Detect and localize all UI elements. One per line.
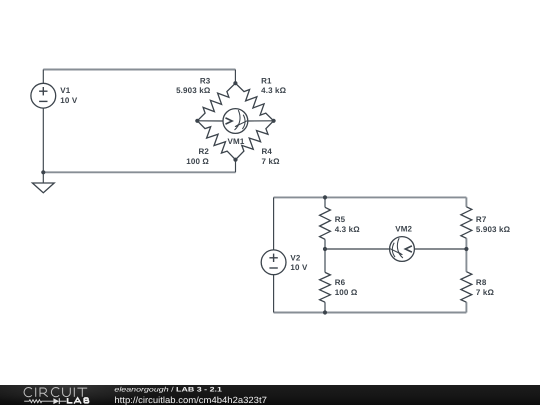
svg-text:VM1: VM1 [228, 137, 245, 146]
label R6 100 Ohm [335, 278, 358, 297]
wire VM2 left lead [325, 248, 390, 250]
svg-text:V2: V2 [290, 253, 300, 262]
svg-text:R6: R6 [335, 278, 346, 287]
label R7 5.903 kOhm [476, 215, 511, 234]
wire left branch lower lead [324, 302, 326, 312]
svg-text:R4: R4 [262, 147, 273, 156]
node bridge bottom [233, 158, 237, 162]
node left branch bottom [323, 310, 327, 314]
label V1 10 V [60, 86, 78, 105]
node bridge left [195, 119, 199, 123]
logo LAB letters [68, 397, 89, 403]
label R4 7 kOhm [262, 147, 281, 166]
label R1 4.3 kOhm [261, 77, 287, 96]
svg-text:R1: R1 [261, 77, 272, 86]
svg-text:eleanorgough / LAB 3 - 2.1: eleanorgough / LAB 3 - 2.1 [114, 386, 222, 393]
wire bottom horizontal bridge to V1 [43, 171, 235, 173]
resistor R3 [197, 83, 235, 121]
voltage source V2 [261, 250, 286, 275]
wire right branch upper lead [465, 197, 467, 206]
footer bar [0, 385, 540, 405]
label R8 7 kOhm [476, 278, 495, 297]
svg-text:4.3 kΩ: 4.3 kΩ [335, 225, 361, 234]
wire VM1 left lead [197, 120, 223, 122]
node bridge top [233, 81, 237, 85]
label R2 100 Ohm [186, 147, 209, 166]
svg-text:4.3 kΩ: 4.3 kΩ [261, 86, 287, 95]
wire bridge top drop [234, 70, 236, 84]
svg-text:7 kΩ: 7 kΩ [476, 288, 495, 297]
logo diode [53, 398, 59, 404]
wire left branch upper lead [324, 197, 326, 207]
label R3 5.903 kOhm [176, 77, 211, 96]
wire right branch lower lead [465, 302, 467, 312]
logo waveform wire [24, 399, 53, 402]
wire right branch middle [465, 238, 467, 271]
label R5 4.3 kOhm [335, 215, 361, 234]
svg-text:5.903 kΩ: 5.903 kΩ [176, 86, 211, 95]
wire ground stub [42, 172, 44, 183]
svg-text:100 Ω: 100 Ω [335, 288, 358, 297]
wire VM2 right lead [414, 248, 466, 250]
node V1 bottom junction [41, 170, 45, 174]
resistor R8 [461, 272, 472, 303]
resistor R6 [320, 272, 331, 302]
voltmeter VM1 [223, 109, 248, 134]
svg-text:http://circuitlab.com/cm4b4h2a: http://circuitlab.com/cm4b4h2a323t7 [114, 395, 267, 405]
svg-text:R8: R8 [476, 278, 487, 287]
wire left branch middle [324, 239, 326, 272]
label V2 10 V [290, 253, 308, 272]
wire V2 bottom stub [273, 275, 275, 313]
wire VM1 right lead [248, 120, 274, 122]
ground [32, 183, 54, 193]
wire V2 top stub [273, 197, 275, 250]
svg-text:R3: R3 [200, 77, 211, 86]
svg-text:7 kΩ: 7 kΩ [262, 157, 281, 166]
resistor R2 [197, 121, 235, 160]
svg-text:VM2: VM2 [395, 225, 412, 234]
logo CIRCUIT letters [24, 387, 87, 396]
svg-text:R2: R2 [198, 147, 209, 156]
node left branch top [323, 195, 327, 199]
svg-text:5.903 kΩ: 5.903 kΩ [476, 225, 511, 234]
resistor R4 [236, 121, 274, 160]
voltage source V1 [31, 83, 56, 108]
wire V1 top stub [42, 70, 44, 84]
node bridge right [272, 119, 276, 123]
wire circuit2 top horizontal [274, 196, 467, 198]
resistor R7 [461, 207, 472, 239]
node left branch mid [323, 247, 327, 251]
resistor R1 [235, 83, 273, 121]
svg-text:R7: R7 [476, 215, 487, 224]
svg-text:10 V: 10 V [60, 96, 78, 105]
voltmeter VM2 [390, 237, 415, 262]
svg-text:V1: V1 [60, 86, 70, 95]
node right branch mid [464, 247, 468, 251]
svg-text:R5: R5 [335, 215, 346, 224]
wire V1 bottom stub [42, 108, 44, 172]
wire circuit2 bottom horizontal [274, 312, 467, 314]
wire top horizontal V1 to bridge [43, 69, 235, 71]
wire bridge bottom drop [235, 160, 237, 173]
svg-text:10 V: 10 V [290, 263, 308, 272]
svg-text:100 Ω: 100 Ω [186, 157, 209, 166]
footer bar background [0, 385, 540, 405]
resistor R5 [320, 207, 331, 239]
